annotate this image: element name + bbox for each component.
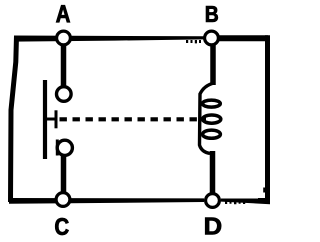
wire top border left segment (A to B, tapering): [14, 36, 204, 42]
switch actuator tick: [55, 110, 58, 128]
lower contact left plate mark: [56, 140, 59, 156]
coil L loop 3: [203, 130, 221, 138]
wire node B to coil top: [210, 42, 216, 85]
wire node C to lower contact: [61, 152, 67, 197]
wire coil bottom to node D: [210, 151, 216, 197]
switch actuator link: [47, 118, 55, 121]
nub on right border: [263, 188, 266, 193]
wire right border (B-D right side): [265, 35, 270, 203]
node B terminal: [205, 31, 219, 45]
coil L loop 1: [203, 100, 221, 107]
wire bottom border left segment (corner to D, tapering): [9, 198, 204, 204]
mechanical linkage dashed line: [60, 117, 207, 121]
lower contact circle: [57, 140, 72, 155]
label D: [205, 218, 221, 235]
coil L loop 2: [203, 115, 221, 123]
upper contact circle: [57, 87, 72, 102]
wire node A to upper contact: [61, 42, 67, 88]
hatch ticks on border left of node B: [186, 40, 201, 43]
label C: [55, 218, 68, 235]
node D terminal: [206, 194, 220, 208]
node C terminal: [56, 193, 70, 207]
coil L top hook: [200, 83, 215, 154]
label A: [56, 5, 70, 22]
wire left border (A-C left side): [11, 36, 17, 202]
switch armature bar: [43, 80, 47, 159]
label B: [206, 6, 218, 22]
node A terminal: [57, 31, 71, 45]
wire top border right segment (B to corner): [219, 35, 268, 41]
wire bottom border right segment (D to corner): [221, 198, 270, 204]
hatch ticks on border right of node D: [225, 201, 245, 204]
